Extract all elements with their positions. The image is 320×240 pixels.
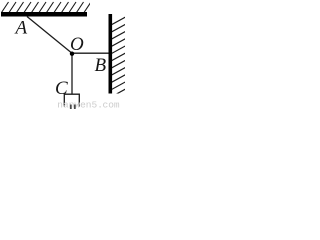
wire rope AO — [27, 17, 72, 54]
wire rope OC — [71, 53, 73, 94]
svg-text:nanwen5.: nanwen5. — [57, 100, 103, 111]
svg-text:A: A — [14, 18, 28, 39]
ceiling bar — [1, 12, 87, 17]
wall bar — [109, 14, 113, 94]
wire rope OB — [72, 52, 109, 54]
svg-text:B: B — [95, 55, 107, 76]
node O junction dot — [70, 52, 74, 56]
svg-text:C: C — [55, 78, 68, 99]
svg-text:com: com — [103, 100, 120, 111]
svg-text:O: O — [70, 34, 84, 55]
block C box — [64, 94, 79, 106]
ceiling hatching — [2, 2, 92, 13]
watermark dark marks at box bottom — [70, 105, 72, 110]
wall hatching — [111, 17, 127, 98]
